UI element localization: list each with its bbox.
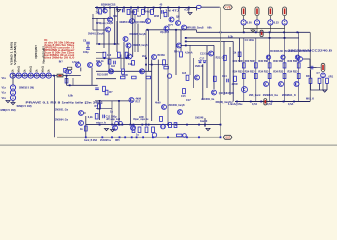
label R11 1k5 xyxy=(182,72,187,75)
transistor QD2 xyxy=(281,55,285,59)
svg-text:diff_amp_load: diff_amp_load xyxy=(106,118,120,121)
transistor Q3 xyxy=(130,19,135,24)
wire v x121 low xyxy=(120,55,122,70)
wire input node down xyxy=(66,76,68,86)
ground bottml2 xyxy=(111,130,115,132)
label 909B xyxy=(119,21,131,24)
label V1x a xyxy=(2,87,7,90)
label R39 xyxy=(234,52,237,55)
junction grey rail x136.6 xyxy=(136,136,138,138)
junction top rail x144.8 xyxy=(144,7,146,9)
rotated label V edge a xyxy=(9,42,13,65)
resistor Rin red highlighted xyxy=(57,74,63,77)
wire caps v xyxy=(87,45,89,47)
junction top rail x104 xyxy=(103,7,105,9)
svg-text:1k2: 1k2 xyxy=(111,65,116,68)
svg-text:2N5551_Ga: 2N5551_Ga xyxy=(55,108,69,111)
label V1x c xyxy=(2,97,7,100)
svg-text:1N5248: 1N5248 xyxy=(195,116,204,119)
resistor RT2 56R xyxy=(254,63,257,68)
wire v x99.6 xyxy=(99,101,101,120)
label R14 100R xyxy=(122,74,128,77)
ground bottml xyxy=(105,129,109,131)
svg-text:R34 R33: R34 R33 xyxy=(288,70,298,74)
resistor R40 emitter xyxy=(65,79,68,84)
current source I4 xyxy=(282,20,287,25)
voltage source V4 xyxy=(22,73,27,78)
transistor Q19 input pair xyxy=(88,63,93,68)
label 51D 1N 47J xyxy=(165,10,180,13)
svg-text:Q10 BD9: Q10 BD9 xyxy=(135,21,146,24)
resistor RD1 xyxy=(108,60,111,65)
fuse F3 xyxy=(268,7,272,16)
svg-text:2N5401_GaryB: 2N5401_GaryB xyxy=(88,33,104,36)
resistor R16 xyxy=(180,52,183,57)
resistor R12 xyxy=(122,69,125,74)
wire vertical x224 xyxy=(223,41,225,95)
capacitor C2 xyxy=(162,10,164,14)
wire output rail grey xyxy=(57,136,221,138)
svg-text:Q??: Q?? xyxy=(168,24,173,27)
transistor Q21 2N5551 xyxy=(79,111,84,116)
junction rail124 x187 xyxy=(186,124,188,126)
resistor RD2 xyxy=(132,61,135,66)
wire inner box top bus xyxy=(185,37,299,39)
resistor RT3 56R xyxy=(268,63,271,68)
wire v x85.8 xyxy=(85,116,87,137)
label BD909/C1B xyxy=(101,2,116,6)
svg-text:V(M01)1M?: V(M01)1M? xyxy=(34,45,38,59)
label BD909B_GaryB a xyxy=(130,33,146,36)
label 100p b xyxy=(83,51,89,54)
wire inner box left xyxy=(239,38,241,62)
label 4k99 b xyxy=(155,101,161,104)
resistor R36 xyxy=(174,123,177,128)
rotated label src6 xyxy=(36,69,39,72)
wire input q v xyxy=(80,68,82,72)
label V1x corner xyxy=(2,77,7,80)
resistor RD3 xyxy=(164,13,167,17)
junction box bottom x237 xyxy=(236,101,238,103)
resistor R6 xyxy=(103,52,106,57)
svg-text:M61_K: M61_K xyxy=(306,98,314,101)
junction grey rail x199 xyxy=(198,136,200,138)
junction bus3 xyxy=(185,45,187,47)
transistor Q18 input xyxy=(76,63,81,68)
svg-text:R24: R24 xyxy=(174,51,179,54)
label 56R c1 xyxy=(233,59,244,63)
resistor R28 xyxy=(98,104,101,109)
junction r29 b xyxy=(175,29,177,31)
label 2SA Gard xyxy=(249,94,261,97)
label row2 c xyxy=(154,15,160,18)
current source I1 xyxy=(241,20,246,25)
voltage source V6 xyxy=(34,73,39,78)
wire rail y78.7 xyxy=(96,78,116,80)
svg-text:MRA18B_GaryB: MRA18B_GaryB xyxy=(187,26,204,29)
label 1k left xyxy=(80,128,83,131)
label 2k2 xyxy=(142,55,147,58)
label C right xyxy=(317,72,321,75)
svg-text:6,3k: 6,3k xyxy=(228,35,233,38)
rotated label src7 xyxy=(42,66,45,72)
label 2SC3601 b xyxy=(201,98,215,101)
wire bus3 y45.4 xyxy=(181,44,214,46)
label 1k2 b xyxy=(111,65,116,68)
wire drop x188.8 xyxy=(188,8,190,13)
label IN box xyxy=(59,60,64,63)
component dual circle a xyxy=(65,70,69,74)
svg-text:2SC3601_Ga: 2SC3601_Ga xyxy=(201,98,215,101)
wire after Rin xyxy=(63,75,81,77)
wire box bottom rail xyxy=(235,101,310,103)
capacitor C1 xyxy=(123,9,125,13)
svg-text:6,8k: 6,8k xyxy=(68,95,73,98)
junction grey rail x143.1 xyxy=(142,136,144,138)
wire cap lead xyxy=(308,67,317,69)
rotated label V(M01) xyxy=(34,45,38,59)
junction bus2 xyxy=(185,41,187,43)
svg-text:MM(0 5 1M): MM(0 5 1M) xyxy=(1,109,16,112)
resistor RT1 56R xyxy=(242,63,245,68)
rotated label src8 xyxy=(48,69,51,72)
wire r bottom xyxy=(311,89,328,91)
svg-text:2SC2240/MCC2240.B: 2SC2240/MCC2240.B xyxy=(288,50,332,53)
transistor QD3 xyxy=(295,55,299,59)
transistor on rail xyxy=(152,133,156,137)
resistor RB3 R33 xyxy=(268,73,271,78)
wire rail y29.8 xyxy=(146,29,197,31)
svg-text:220R: 220R xyxy=(232,83,238,86)
svg-text:1k2: 1k2 xyxy=(107,54,112,57)
resistor R17 xyxy=(224,55,227,60)
net flag out xyxy=(223,135,232,139)
label below R21b xyxy=(181,95,186,98)
junction r32 x220.5 xyxy=(220,31,222,33)
svg-text:C17: C17 xyxy=(186,99,191,102)
svg-text:+C8?: +C8? xyxy=(184,8,190,11)
voltage source V1a xyxy=(10,85,15,90)
svg-text:R13 100R: R13 100R xyxy=(97,73,108,76)
svg-text:Q16 MJE15030: Q16 MJE15030 xyxy=(219,92,235,95)
current source I3 xyxy=(268,20,273,25)
wire vertical x233.2 xyxy=(232,41,234,101)
label 6.3k xyxy=(228,35,233,38)
junction y85 xyxy=(69,84,71,86)
wire rv4 xyxy=(326,83,328,90)
circle on rail xyxy=(183,134,187,138)
fuse F5 on rail xyxy=(260,30,263,36)
transistor Q15 xyxy=(195,75,200,80)
svg-text:R34 R33: R34 R33 xyxy=(273,70,283,74)
svg-text:2SC3601_GaryB: 2SC3601_GaryB xyxy=(169,104,185,107)
svg-text:C14: C14 xyxy=(222,75,227,78)
label Q16 MJE xyxy=(219,92,235,95)
svg-text:BD909/C1B: BD909/C1B xyxy=(101,2,116,6)
wire input line xyxy=(13,75,57,77)
junction y64 xyxy=(145,64,147,66)
wire x92 v xyxy=(91,68,93,86)
wire h y108.5 xyxy=(96,108,112,110)
svg-text:C13 1u: C13 1u xyxy=(200,53,209,56)
capacitor C14 xyxy=(227,79,229,83)
label 22R xyxy=(139,116,144,119)
wire pill lead 2 xyxy=(256,16,258,20)
wire q17 c xyxy=(303,58,310,60)
resistor R4 xyxy=(142,9,145,14)
wire output net vertical grey xyxy=(220,7,222,137)
wire pill lead 3 xyxy=(269,16,271,20)
junction top rail x160.4 xyxy=(160,7,162,9)
junction bus1c xyxy=(284,37,286,39)
wire drop x168.2 xyxy=(167,8,169,18)
svg-text:R?: R? xyxy=(109,91,113,94)
svg-text:6,2k: 6,2k xyxy=(88,116,93,119)
resistor RB2 R33 xyxy=(254,73,257,78)
resistor R21b xyxy=(183,89,186,94)
wire pill lead 4 xyxy=(284,16,286,20)
rotated label src3 xyxy=(18,66,21,72)
label V annotation xyxy=(160,31,170,34)
transistor Q7 BD909B xyxy=(126,43,131,48)
wire v x117 mid xyxy=(116,21,118,52)
wire drop x148 xyxy=(147,8,149,19)
svg-text:R40: R40 xyxy=(306,75,311,78)
wire v x130.4 xyxy=(129,103,131,125)
wire pill lead 1 xyxy=(243,16,245,20)
red annotation line1 xyxy=(44,39,48,42)
red annotation line5 xyxy=(44,49,74,52)
svg-text:2N5564_Ga: 2N5564_Ga xyxy=(55,119,69,122)
label 56R c2 xyxy=(245,59,256,63)
fuse F2 xyxy=(255,7,259,16)
label 1N4148 xyxy=(195,65,204,68)
label 0.33 xyxy=(274,21,279,24)
fuse F4 xyxy=(283,7,287,16)
wire v x109 mid xyxy=(108,32,110,71)
svg-text:0,54: 0,54 xyxy=(252,103,257,106)
voltage source V1c xyxy=(10,95,15,100)
label row2 a xyxy=(113,15,118,18)
label 2SC3601 xyxy=(169,104,185,107)
mirror pair a xyxy=(115,121,119,125)
junction y100 a xyxy=(99,100,101,102)
junction rail124 x99.6 xyxy=(99,124,101,126)
label R33 c4 xyxy=(273,70,283,74)
wire v x190 xyxy=(189,45,191,75)
resistor R10 xyxy=(164,66,169,69)
resistor R39 xyxy=(238,52,241,57)
label 2N5401_GaryB xyxy=(88,33,104,36)
svg-text:PRAVE 0.1 R2 8 1mHz bile [3n 3: PRAVE 0.1 R2 8 1mHz bile [3n 36n] xyxy=(26,100,103,104)
resistor R13 xyxy=(121,76,126,79)
junction r32 x269.6 xyxy=(269,31,271,33)
label 1u mid xyxy=(110,111,113,114)
wire vertical x214 xyxy=(213,45,215,89)
red annotation line4 xyxy=(44,47,75,50)
wire drop x117 xyxy=(116,8,118,13)
wire rail step xyxy=(196,30,198,33)
label Q10 BD909 xyxy=(135,21,146,24)
wire rail y32.3 xyxy=(197,31,311,33)
svg-text:V(n1): V(n1) xyxy=(30,66,33,72)
wire vertical x230 xyxy=(229,47,231,95)
rotated label V(out0) xyxy=(41,46,45,64)
wire box right edge xyxy=(309,32,311,101)
red annotation line2 xyxy=(44,42,75,45)
junction f1 xyxy=(145,57,147,59)
svg-text:+VE: +VE xyxy=(225,5,231,9)
wire source lead 1 xyxy=(243,25,245,29)
wire drop x110 xyxy=(109,8,111,18)
label 2N6MH1 Ga xyxy=(263,94,279,97)
label R24 xyxy=(174,51,179,54)
junction rail124 x176 xyxy=(175,124,177,126)
wire vertical x196.6 xyxy=(196,8,198,11)
resistor R38 on rail xyxy=(177,134,183,137)
svg-text:V(n1): V(n1) xyxy=(42,66,45,72)
resistor RB4 R33 xyxy=(283,73,286,78)
wire column v x298.7 xyxy=(298,32,300,101)
wire rail y124.6 xyxy=(86,124,221,126)
label C14 xyxy=(222,75,227,78)
resistor R9 xyxy=(163,60,166,65)
resistor R25 xyxy=(64,68,67,72)
svg-text:R21_G?: R21_G? xyxy=(216,57,226,60)
wire vertical x146 xyxy=(145,30,147,125)
wire q2122 join xyxy=(84,112,86,114)
diode D2 xyxy=(199,61,202,63)
rotated label src2 xyxy=(12,69,15,72)
svg-text:R?: R? xyxy=(95,105,99,108)
junction rail44b xyxy=(114,43,116,45)
capacitor C12 xyxy=(103,115,105,119)
label R右 xyxy=(109,91,113,94)
resistor R31 xyxy=(132,127,135,133)
svg-text:V(in)5.2: V(in)5.2 xyxy=(160,31,170,34)
capacitor C11 xyxy=(95,88,99,90)
label 1k8 xyxy=(96,11,101,14)
svg-text:0R5: 0R5 xyxy=(115,139,120,142)
red annotation line7 xyxy=(44,54,74,57)
diode D3 xyxy=(203,61,206,63)
label under rail c xyxy=(115,139,120,142)
voltage source V5 xyxy=(28,73,33,78)
junction top rail x153.6 xyxy=(153,7,155,9)
svg-text:R30 56R: R30 56R xyxy=(258,59,269,63)
label BD909B_GaryB b xyxy=(133,44,148,47)
svg-text:C1?: C1? xyxy=(200,57,205,60)
rotated label src5 xyxy=(30,66,33,72)
wire rail y44 xyxy=(96,43,119,45)
junction top rail x117 xyxy=(116,7,118,9)
wire source to rail 1 xyxy=(243,29,245,33)
svg-text:R11 1k: R11 1k xyxy=(96,60,104,63)
label 4.5mA xyxy=(185,52,193,55)
label num b xyxy=(267,103,272,106)
junction grey rail x125.2 xyxy=(124,136,126,138)
svg-text:IN?: IN? xyxy=(59,60,64,63)
svg-text:C16: C16 xyxy=(128,63,133,66)
junction bus1 xyxy=(185,37,187,39)
label R33 c2 xyxy=(245,70,255,74)
wire source lead 2 xyxy=(256,25,258,29)
svg-text:C?: C? xyxy=(317,72,321,75)
transistor Q3c xyxy=(169,17,174,22)
svg-text:NPN(som_GaryB: NPN(som_GaryB xyxy=(96,22,113,25)
resistor R2 xyxy=(127,9,130,14)
svg-text:1k8: 1k8 xyxy=(96,11,101,14)
label BC3006 c xyxy=(299,50,312,53)
svg-text:C4 100n: C4 100n xyxy=(245,39,255,42)
junction top rail x179 xyxy=(178,7,180,9)
svg-text:BC3006.8C: BC3006.8C xyxy=(270,50,283,53)
junction rail44 xyxy=(98,43,100,45)
transistor Q25 xyxy=(162,105,167,110)
transistor Q1 xyxy=(103,9,107,13)
wire v x205 xyxy=(204,118,206,127)
label C4 100n xyxy=(245,39,255,42)
junction top rail x131 xyxy=(130,7,132,9)
svg-text:C15: C15 xyxy=(181,95,186,98)
label R33 c1 xyxy=(233,70,243,74)
wire bus2 y41.4 xyxy=(185,40,233,42)
label 45 above rail xyxy=(160,4,163,7)
wire vertical x148.5 xyxy=(148,30,150,71)
svg-text:4k99: 4k99 xyxy=(155,101,161,104)
window border grey xyxy=(0,144,337,146)
transistor Q11 xyxy=(109,69,114,74)
junction box bottom x261.2 xyxy=(260,101,262,103)
transistor Q26 xyxy=(178,110,183,115)
resistor R24 0R1 xyxy=(326,78,329,83)
label R17b xyxy=(136,100,141,103)
label R40 xyxy=(306,75,311,78)
wire top positive rail xyxy=(95,7,197,9)
svg-text:V(n1): V(n1) xyxy=(18,66,21,72)
resistor R14 xyxy=(132,76,137,79)
label under rail a xyxy=(84,139,98,142)
wire rail y100.9 xyxy=(95,100,133,102)
transistor Q5b xyxy=(97,62,102,67)
transistor Q5 2N5401 xyxy=(106,27,111,32)
svg-text:0,5A: 0,5A xyxy=(288,103,293,106)
resistor R22 0R1 xyxy=(309,78,312,83)
label 0R1 xyxy=(329,75,334,78)
junction rail124 x199 xyxy=(198,124,200,126)
rotated label V edge b xyxy=(13,42,17,65)
junction rail124 x130.4 xyxy=(130,124,132,126)
label 56R c4 xyxy=(273,59,284,63)
wire vertical x176 xyxy=(175,30,177,75)
resistor R37 xyxy=(160,116,163,121)
svg-text:BD909B_GaryB: BD909B_GaryB xyxy=(133,44,148,47)
wire v x117.5 pair xyxy=(117,8,119,45)
junction r32 x261.6 xyxy=(261,31,263,33)
ground top a xyxy=(117,10,121,12)
svg-text:BF469: BF469 xyxy=(158,54,166,57)
junction top rail x188.8 xyxy=(188,7,190,9)
wire rail y18.4 xyxy=(92,17,113,19)
voltage source V1b xyxy=(10,90,15,95)
resistor R27 xyxy=(105,90,108,95)
wire src to gnd right xyxy=(322,78,324,90)
svg-text:Gard_B 2N4: Gard_B 2N4 xyxy=(84,139,98,142)
junction rail124 x205 xyxy=(204,124,206,126)
label riper caps xyxy=(133,118,148,121)
label +C8 xyxy=(184,8,190,11)
svg-text:V1x: V1x xyxy=(2,97,7,100)
